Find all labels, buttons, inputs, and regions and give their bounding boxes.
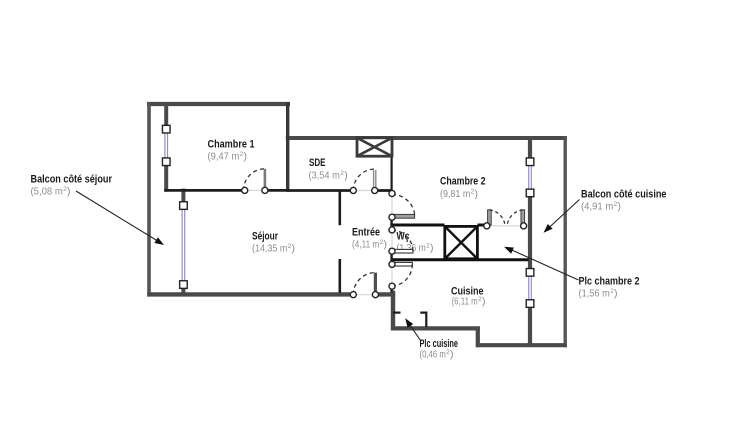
door: double door to chambre 2 closet (two leaves + butterfly arcs + hinges) (484, 210, 527, 229)
wall: sejour-entree lower stub (338, 259, 341, 293)
door: sejour-entree (leaf + swing arc + hinge circles) (350, 273, 378, 298)
door: cuisine (leaf + swing arc + hinge circles) (389, 261, 412, 289)
wall: chambre 1 left (window wall) (164, 102, 168, 192)
opening line: wc door (391, 233, 393, 249)
svg-text:): ) (475, 188, 479, 200)
door: chambre 1 (leaf + swing arc + hinge circles) (242, 169, 268, 194)
svg-text:Plc chambre 2: Plc chambre 2 (579, 276, 640, 288)
label: Plc cuisine (420, 338, 459, 361)
wall: closet band top (left of box) (390, 224, 444, 227)
wall: sejour left (window wall) (181, 189, 185, 297)
door: SDE (leaf + swing arc + hinge circles) (350, 169, 378, 193)
window W2: sejour left wall (long) (180, 202, 188, 289)
wall: top perimeter right (SDE, chambre 2, balcony) (286, 136, 567, 140)
svg-text:(9,81 m: (9,81 m (440, 188, 471, 200)
label: Chambre 1 (208, 139, 255, 163)
label: Chambre 2 (440, 176, 486, 201)
wall: below conduit box (entree / chambre 2) (391, 155, 393, 192)
label: Balcon cote sejour (31, 174, 113, 198)
svg-text:Chambre 2: Chambre 2 (440, 176, 486, 188)
wall: chambre 1 bottom (right of door) (268, 189, 289, 192)
svg-text:): ) (67, 186, 71, 198)
window W4: cuisine right wall (526, 269, 534, 308)
opening line: double door (490, 225, 522, 227)
wall: wc left upper stub (390, 220, 392, 228)
wall: chambre 1 bottom (left of door) (164, 189, 241, 192)
wall: cuisine left (391, 291, 395, 331)
wall: entree bottom right of door (378, 292, 396, 296)
annotation arrow: plc cuisine (405, 318, 420, 340)
plc cuisine partition brackets (393, 312, 426, 328)
svg-text:Balcon côté séjour: Balcon côté séjour (31, 174, 113, 186)
label: Plc chambre 2 (579, 276, 640, 300)
svg-text:(6,11 m: (6,11 m (452, 296, 478, 308)
svg-text:(5,08 m: (5,08 m (31, 186, 64, 198)
svg-text:): ) (482, 296, 486, 308)
opening line: chambre 2 door (391, 197, 393, 215)
wall: closet band bottom (390, 258, 528, 261)
wall: closet band top (box to double door) (478, 224, 485, 227)
svg-text:Séjour: Séjour (252, 231, 279, 243)
opening line: SDE door (356, 190, 373, 192)
svg-text:): ) (384, 239, 388, 251)
conduit box 1 (SDE shaft) (357, 138, 392, 156)
wall: right wall (chambre 2 / cuisine) (528, 136, 532, 345)
door: wc (leaf + swing arc + hinge circles) (389, 227, 413, 254)
conduit box 2 (plc chambre 2 shaft) (445, 226, 478, 258)
wall: step vertical (476, 326, 480, 347)
annotation arrow: plc chambre 2 (504, 247, 579, 280)
svg-text:(0,46 m: (0,46 m (420, 349, 446, 361)
wall: wc left lower stub (390, 253, 392, 263)
svg-text:(4,91 m: (4,91 m (581, 201, 614, 213)
label: SDE (309, 157, 348, 182)
svg-text:(14,35 m: (14,35 m (252, 243, 288, 255)
window W3: chambre 2 right wall (526, 158, 534, 197)
svg-text:(3,54 m: (3,54 m (309, 170, 341, 182)
label: Entree (352, 227, 387, 251)
svg-text:(1,56 m: (1,56 m (579, 288, 611, 300)
wall: SDE bottom (right of door) (378, 189, 393, 192)
svg-text:Chambre 1: Chambre 1 (208, 139, 255, 151)
label: Sejour (252, 231, 295, 255)
annotation arrow: balcon cote cuisine (544, 200, 580, 233)
svg-text:(4,11 m: (4,11 m (352, 239, 379, 251)
wall: bottom right perimeter (476, 343, 567, 347)
svg-text:): ) (618, 201, 622, 213)
svg-text:SDE: SDE (309, 157, 326, 169)
door: entree to chambre 2 (leaf + swing arc + hinge circles) (389, 190, 415, 220)
svg-text:): ) (292, 243, 296, 255)
window W1: chambre 1 left wall (162, 125, 170, 165)
label: Balcon cote cuisine (581, 189, 667, 213)
wall: right balcony outer (564, 136, 567, 347)
label: Wc (397, 231, 434, 255)
opening line: cuisine door (391, 267, 393, 284)
svg-text:): ) (450, 349, 454, 361)
wall: SDE bottom (left of door) (287, 189, 351, 192)
svg-text:): ) (430, 242, 434, 254)
wall: cuisine bottom upper step (391, 326, 480, 330)
annotation arrow: balcon cote sejour (76, 191, 164, 245)
wall: left balcony outer (147, 102, 151, 296)
opening line: entree door (356, 294, 373, 296)
wall: entree right below cuisine door (390, 285, 392, 293)
wall: sejour-entree upper stub (338, 191, 341, 226)
wall: chambre 1 right / SDE left (286, 102, 289, 192)
svg-text:): ) (344, 170, 348, 182)
svg-text:Entrée: Entrée (352, 227, 380, 239)
svg-text:): ) (614, 288, 618, 300)
label: Cuisine (451, 286, 486, 308)
wall: top perimeter left (balcony + chambre 1) (147, 102, 290, 106)
opening line: chambre 1 door (247, 189, 263, 191)
svg-text:): ) (244, 151, 248, 163)
svg-text:(9,47 m: (9,47 m (208, 151, 240, 163)
wall: sejour bottom perimeter (147, 292, 350, 296)
svg-text:Balcon côté cuisine: Balcon côté cuisine (581, 189, 667, 201)
